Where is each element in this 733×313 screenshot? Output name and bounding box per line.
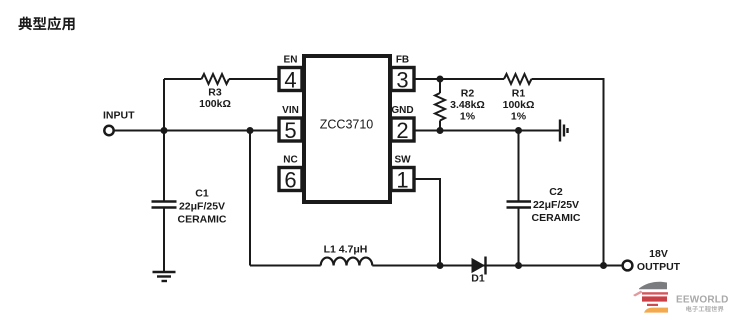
capacitor C2 plates <box>507 200 532 202</box>
svg-text:SW: SW <box>394 155 411 166</box>
wire R1 to right corner <box>532 78 604 80</box>
svg-text:ZCC3710: ZCC3710 <box>320 118 374 132</box>
svg-text:3: 3 <box>396 68 408 93</box>
wire input to VIN <box>114 130 278 132</box>
capacitor C1 plates <box>152 200 177 202</box>
pin 5 box <box>279 118 302 141</box>
svg-text:1%: 1% <box>511 111 527 123</box>
svg-text:6: 6 <box>284 168 296 193</box>
wire L1 to output <box>372 265 622 267</box>
svg-text:1%: 1% <box>460 111 476 123</box>
pin 3 box <box>391 68 414 91</box>
svg-text:3.48kΩ: 3.48kΩ <box>450 99 485 111</box>
diode D1 triangle <box>472 258 486 273</box>
wire C1 to ground <box>163 208 165 272</box>
wire SW pin to bottom rail <box>415 179 440 266</box>
svg-text:100kΩ: 100kΩ <box>199 98 231 110</box>
svg-text:C1: C1 <box>195 188 209 200</box>
watermark EEWORLD logo mark <box>633 282 668 313</box>
svg-text:INPUT: INPUT <box>103 110 135 122</box>
wire FB row <box>415 78 504 80</box>
svg-text:C2: C2 <box>549 186 563 198</box>
wire FB node down to R2 <box>439 79 441 93</box>
wire R2 to GND row <box>439 121 441 131</box>
svg-text:GND: GND <box>391 105 413 116</box>
ground GND2 rotated <box>559 120 561 142</box>
svg-text:CERAMIC: CERAMIC <box>178 214 227 226</box>
pin 6 box <box>279 168 302 191</box>
wire bottom rail to L1 <box>250 265 321 267</box>
wire node A down to C1 <box>163 131 165 202</box>
resistor R1 zigzag <box>504 74 532 84</box>
junction node A <box>161 127 168 134</box>
wire C2 bottom <box>518 208 520 266</box>
svg-text:D1: D1 <box>471 273 485 285</box>
svg-text:FB: FB <box>396 55 409 66</box>
watermark 电子工程世界 <box>686 306 724 312</box>
junction FB/R2 node <box>437 76 444 83</box>
svg-text:5: 5 <box>284 118 296 143</box>
IC U1 body <box>304 56 390 202</box>
svg-text:R2: R2 <box>461 88 475 100</box>
junction GND/C2 node <box>515 127 522 134</box>
svg-text:EN: EN <box>284 55 298 66</box>
wire R3 to EN pin <box>229 78 278 80</box>
input terminal circle <box>104 126 113 135</box>
pin 4 box <box>279 68 302 91</box>
wire node B down to bottom rail <box>249 132 251 266</box>
svg-text:22μF/25V: 22μF/25V <box>179 201 225 213</box>
svg-text:L1 4.7μH: L1 4.7μH <box>324 244 368 256</box>
svg-text:NC: NC <box>283 155 297 166</box>
junction C2/rail node <box>515 262 522 269</box>
svg-text:100kΩ: 100kΩ <box>503 99 535 111</box>
junction R2/GND node <box>437 127 444 134</box>
svg-text:18V: 18V <box>649 248 668 260</box>
wire R3 row left segment <box>164 78 202 80</box>
wire C2 top <box>518 131 520 202</box>
svg-text:EEWORLD: EEWORLD <box>676 295 729 306</box>
pin 2 box <box>391 118 414 141</box>
svg-text:4: 4 <box>284 68 296 93</box>
svg-text:CERAMIC: CERAMIC <box>532 212 581 224</box>
svg-text:1: 1 <box>396 168 408 193</box>
wire GND row <box>415 130 559 132</box>
svg-text:OUTPUT: OUTPUT <box>637 261 681 273</box>
junction node B <box>247 127 254 134</box>
wire right drop to output rail <box>603 78 605 266</box>
svg-text:R1: R1 <box>512 88 526 100</box>
pin 1 box <box>391 168 414 191</box>
junction right-drop/rail node <box>600 262 607 269</box>
inductor L1 <box>321 258 373 266</box>
resistor R3 zigzag <box>202 74 230 84</box>
ground GND1 <box>153 271 176 273</box>
svg-text:R3: R3 <box>208 87 222 99</box>
svg-text:22μF/25V: 22μF/25V <box>533 199 579 211</box>
junction SW/rail node <box>437 262 444 269</box>
wire node A up to R3 row <box>163 79 165 132</box>
output terminal circle <box>623 261 633 271</box>
diode D1 cathode bar <box>484 257 486 275</box>
svg-text:2: 2 <box>396 118 408 143</box>
resistor R2 zigzag <box>435 93 445 121</box>
svg-text:VIN: VIN <box>282 105 299 116</box>
title 典型应用 <box>18 17 74 31</box>
